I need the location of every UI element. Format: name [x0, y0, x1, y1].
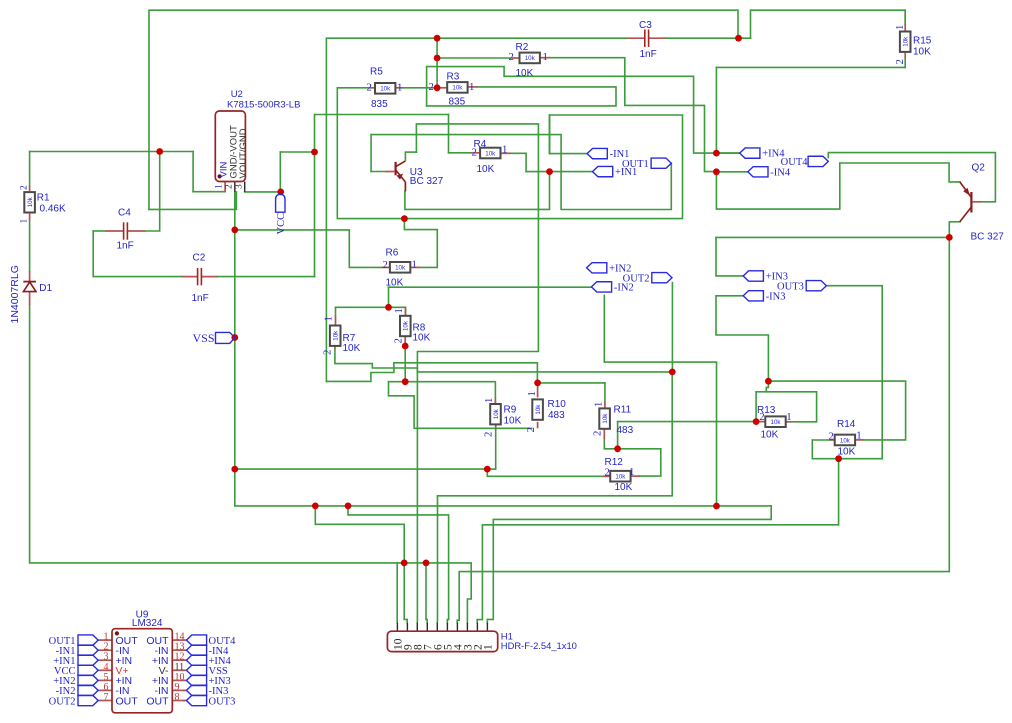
wire [716, 152, 739, 154]
pin [234, 182, 236, 192]
wire [405, 151, 416, 153]
resistor R8 [400, 316, 411, 336]
junction [614, 445, 621, 452]
svg-text:1: 1 [323, 316, 335, 321]
svg-text:10k: 10k [403, 320, 410, 331]
wire [426, 563, 427, 623]
wire [716, 66, 905, 68]
net label -IN2 [591, 282, 611, 292]
net label -IN3 [743, 291, 763, 301]
transistor Q2 BC 327 [970, 192, 972, 213]
svg-text:483: 483 [617, 425, 634, 436]
svg-text:835: 835 [449, 97, 466, 108]
svg-text:10k: 10k [452, 85, 463, 92]
resistor R9 [490, 404, 501, 424]
wire [315, 114, 448, 116]
junction [345, 503, 352, 510]
wire [755, 392, 757, 422]
wire [184, 649, 187, 651]
wire [149, 10, 738, 209]
junction [669, 369, 676, 376]
junction [231, 227, 238, 234]
wire [405, 172, 550, 210]
resistor R14 [835, 435, 855, 446]
pin [100, 649, 113, 651]
wire [604, 439, 661, 476]
svg-text:1: 1 [20, 219, 30, 224]
wire [812, 439, 829, 441]
junction [156, 148, 163, 155]
svg-text:U2: U2 [231, 89, 243, 100]
svg-text:10k: 10k [380, 86, 391, 93]
wire [404, 219, 437, 268]
svg-text:1: 1 [483, 398, 495, 403]
net label +IN3 [743, 271, 763, 281]
wire [716, 296, 768, 381]
svg-text:1N4007RLG: 1N4007RLG [9, 265, 21, 323]
pin [756, 421, 765, 423]
pin [381, 266, 390, 268]
wire [371, 135, 671, 210]
svg-text:OUT: OUT [146, 695, 169, 707]
wire [716, 171, 747, 173]
voltage regulator U2 [215, 111, 245, 182]
pin [604, 401, 606, 408]
pin [396, 623, 398, 631]
svg-text:R5: R5 [370, 67, 383, 78]
pin [172, 659, 185, 661]
wire [495, 430, 497, 469]
resistor R10 [532, 399, 543, 419]
pin [512, 57, 520, 59]
wire [337, 88, 682, 219]
svg-text:483: 483 [548, 410, 565, 421]
pin [786, 421, 791, 423]
svg-text:BC 327: BC 327 [410, 176, 444, 187]
wire [337, 87, 369, 89]
svg-text:2: 2 [829, 430, 834, 442]
junction [713, 168, 720, 175]
wire [427, 67, 740, 154]
junction [534, 380, 541, 387]
svg-text:10K: 10K [615, 482, 633, 493]
wire [405, 307, 407, 316]
pin [172, 700, 185, 702]
wire [402, 87, 438, 89]
pin [334, 346, 336, 349]
pin [29, 292, 31, 305]
pin [628, 37, 645, 39]
wire [184, 700, 187, 702]
wire [812, 440, 882, 459]
pin [416, 623, 418, 631]
svg-text:10K: 10K [913, 47, 931, 58]
svg-text:1nF: 1nF [640, 49, 657, 60]
svg-text:1: 1 [526, 391, 538, 396]
junction [401, 215, 408, 222]
pin [437, 87, 447, 89]
svg-text:1: 1 [215, 184, 225, 189]
pin [471, 152, 480, 154]
pin [202, 276, 218, 278]
svg-text:R3: R3 [447, 72, 460, 83]
svg-text:C2: C2 [193, 253, 206, 264]
svg-text:C4: C4 [118, 208, 131, 219]
wire [193, 191, 225, 193]
resistor R12 [610, 471, 630, 482]
pin [369, 87, 375, 89]
power flag VCC [276, 194, 285, 212]
wire [904, 10, 906, 24]
junction [484, 466, 491, 473]
junction [231, 334, 238, 341]
resistor R3 [447, 82, 467, 93]
wire [751, 10, 906, 38]
junction [713, 503, 720, 510]
wire [184, 639, 187, 641]
wire [766, 381, 816, 422]
svg-text:1: 1 [393, 308, 405, 313]
svg-text:1: 1 [593, 402, 605, 407]
wire [715, 67, 717, 153]
junction [753, 418, 760, 425]
wire [184, 679, 187, 681]
svg-text:BC 327: BC 327 [971, 232, 1005, 243]
wire [716, 163, 959, 209]
pin [29, 214, 31, 221]
net label OUT1 [651, 158, 671, 168]
wire [314, 115, 316, 277]
junction [231, 466, 238, 473]
junction [434, 35, 441, 42]
resistor R4 [480, 148, 500, 159]
svg-text:10k: 10k [333, 330, 340, 341]
wire [184, 669, 187, 671]
wire [396, 563, 398, 623]
svg-text:10k: 10k [535, 404, 542, 415]
pin [224, 182, 226, 192]
svg-text:10k: 10k [615, 474, 626, 481]
svg-text:1: 1 [397, 81, 402, 93]
junction [434, 55, 441, 62]
pin [100, 689, 113, 691]
svg-text:10k: 10k [602, 413, 609, 424]
wire [335, 307, 337, 316]
wire [184, 659, 187, 661]
wire [548, 115, 550, 154]
svg-text:OUT2: OUT2 [49, 696, 76, 707]
pin [486, 623, 488, 631]
pin [649, 37, 666, 39]
transistor U3 BC 327 [395, 162, 397, 175]
wire [389, 286, 592, 288]
net label OUT2 [652, 273, 672, 283]
svg-text:OUT1: OUT1 [622, 159, 649, 170]
junction [546, 168, 553, 175]
svg-text:-IN3: -IN3 [766, 291, 786, 302]
svg-text:2: 2 [393, 338, 405, 343]
svg-text:VCC: VCC [276, 213, 287, 235]
wire [510, 153, 526, 171]
svg-text:C3: C3 [639, 20, 652, 31]
svg-text:1: 1 [856, 429, 861, 441]
svg-text:10K: 10K [516, 68, 534, 79]
wire [326, 38, 628, 381]
svg-text:R6: R6 [386, 248, 399, 259]
pin [426, 623, 428, 631]
wire [245, 191, 281, 193]
wire [235, 468, 496, 470]
pin [29, 186, 31, 191]
net label +IN1 [593, 166, 613, 176]
wire [98, 649, 101, 651]
power flag VSS [216, 332, 235, 343]
resistor R1 [24, 192, 35, 212]
svg-text:OUT2: OUT2 [623, 273, 650, 284]
wire [348, 506, 449, 623]
pin [100, 639, 113, 641]
wire [235, 230, 381, 268]
svg-text:D1: D1 [39, 283, 52, 294]
wire [404, 346, 406, 382]
pin [29, 271, 31, 281]
pin [466, 623, 468, 631]
wire [335, 349, 417, 368]
pin [100, 669, 113, 671]
svg-text:2: 2 [605, 467, 610, 479]
net label +IN2 [587, 263, 607, 273]
wire [336, 306, 406, 308]
wire [756, 391, 766, 393]
wire [30, 151, 194, 153]
wire [93, 231, 181, 277]
pin [128, 230, 146, 232]
pin [172, 649, 185, 651]
junction [735, 35, 742, 42]
svg-text:10K: 10K [838, 447, 856, 458]
wire [538, 382, 605, 384]
pin [456, 623, 458, 631]
svg-text:1: 1 [543, 51, 548, 63]
capacitor C4 [123, 222, 125, 239]
resistor R13 [765, 416, 785, 427]
svg-text:835: 835 [371, 99, 388, 110]
svg-text:R9: R9 [504, 405, 517, 416]
svg-text:R10: R10 [548, 399, 567, 410]
svg-text:10K: 10K [477, 164, 495, 175]
svg-text:10K: 10K [504, 416, 522, 427]
svg-text:2: 2 [472, 146, 477, 158]
svg-text:2: 2 [509, 51, 514, 63]
svg-text:7: 7 [104, 692, 109, 703]
wire [487, 469, 605, 476]
svg-text:1: 1 [894, 25, 906, 30]
wire [218, 276, 315, 278]
wire [666, 37, 751, 39]
wire [315, 506, 404, 563]
svg-text:1nF: 1nF [192, 293, 209, 304]
wire [436, 496, 438, 623]
wire [457, 222, 949, 623]
wire [98, 669, 101, 671]
pin [494, 397, 496, 406]
svg-text:OUT3: OUT3 [209, 696, 236, 707]
wire [617, 422, 619, 449]
pin [335, 316, 337, 326]
pin [603, 475, 611, 477]
svg-text:10k: 10k [493, 408, 500, 419]
pin [244, 182, 246, 192]
wire [93, 230, 105, 232]
svg-text:R1: R1 [37, 193, 50, 204]
svg-text:LM324: LM324 [132, 618, 163, 629]
svg-text:2: 2 [367, 81, 372, 93]
svg-text:2: 2 [759, 411, 764, 423]
svg-text:1: 1 [502, 143, 507, 155]
pin [603, 429, 605, 439]
pin [468, 86, 478, 88]
wire [448, 115, 450, 153]
svg-text:10K: 10K [761, 430, 779, 441]
svg-text:2: 2 [592, 431, 604, 436]
wire [389, 382, 532, 429]
wire [828, 153, 995, 202]
junction [401, 560, 408, 567]
wire [949, 221, 960, 223]
svg-text:VSS: VSS [192, 331, 214, 345]
pin [829, 439, 835, 441]
net label +IN4 [740, 148, 760, 158]
svg-text:R2: R2 [516, 42, 529, 53]
junction [765, 378, 772, 385]
wire [904, 59, 906, 68]
wire [477, 459, 838, 623]
svg-text:10k: 10k [903, 36, 910, 47]
svg-text:OUT4: OUT4 [781, 157, 809, 168]
wire [371, 171, 385, 173]
junction [713, 150, 720, 157]
svg-text:-IN4: -IN4 [770, 167, 791, 178]
pin [404, 336, 406, 346]
wire [29, 221, 31, 271]
wire [604, 295, 716, 506]
resistor R7 [330, 326, 341, 346]
wire [98, 639, 101, 641]
pin [172, 639, 185, 641]
pin [446, 623, 448, 631]
wire [326, 363, 537, 383]
wire [388, 287, 390, 307]
svg-text:1: 1 [482, 644, 494, 650]
junction [835, 455, 842, 462]
op-amp U9 LM324 [112, 629, 172, 713]
pin [172, 669, 185, 671]
pin [537, 385, 539, 397]
net label -IN1 [587, 148, 607, 158]
wire [98, 659, 101, 661]
resistor R2 [520, 53, 540, 64]
capacitor C2 [197, 268, 199, 285]
diode D1 [23, 282, 36, 292]
junction [311, 149, 318, 156]
pin [106, 230, 124, 232]
wire [184, 689, 187, 691]
svg-text:1: 1 [629, 466, 634, 478]
resistor R15 [900, 32, 911, 52]
pin [540, 57, 550, 59]
svg-text:2: 2 [20, 185, 30, 190]
pin [100, 679, 113, 681]
wire [427, 87, 616, 106]
wire [192, 152, 194, 192]
svg-text:3: 3 [234, 184, 244, 189]
wire [438, 372, 673, 496]
svg-text:2: 2 [894, 59, 906, 64]
svg-text:10K: 10K [413, 333, 431, 344]
pin [100, 659, 113, 661]
svg-text:2: 2 [525, 427, 537, 432]
pin [904, 24, 906, 30]
wire [487, 506, 771, 623]
svg-text:HDR-F-2.54_1x10: HDR-F-2.54_1x10 [501, 640, 577, 651]
pin [537, 422, 539, 428]
wire [235, 338, 771, 506]
wire [716, 237, 743, 276]
net label -IN4 [748, 167, 768, 177]
svg-text:10k: 10k [840, 437, 851, 444]
pin [410, 266, 420, 268]
junction [277, 189, 284, 196]
wire [404, 563, 407, 623]
svg-text:8: 8 [175, 692, 180, 703]
wire [29, 152, 31, 186]
svg-text:Q2: Q2 [972, 163, 986, 174]
pin [855, 439, 864, 441]
pin [904, 53, 906, 59]
svg-text:OUT3: OUT3 [777, 281, 804, 292]
pin [436, 623, 438, 631]
pin [405, 307, 407, 316]
svg-text:10k: 10k [771, 419, 782, 426]
svg-text:R15: R15 [913, 36, 932, 47]
wire [98, 679, 101, 681]
svg-text:10k: 10k [27, 196, 34, 207]
svg-text:10K: 10K [343, 343, 361, 354]
svg-text:K7815-500R3-LB: K7815-500R3-LB [227, 100, 300, 111]
svg-text:10k: 10k [485, 150, 496, 157]
pin [181, 276, 197, 278]
pin [396, 87, 402, 89]
svg-text:1: 1 [469, 81, 474, 93]
pin [172, 689, 185, 691]
junction [946, 234, 953, 241]
junction [423, 560, 430, 567]
pin [501, 152, 511, 154]
wire [146, 152, 160, 232]
svg-text:10k: 10k [525, 55, 536, 62]
capacitor C3 [644, 30, 646, 47]
net label OUT3 [806, 281, 826, 291]
svg-text:2: 2 [383, 259, 388, 271]
net label OUT4 [808, 156, 828, 166]
svg-text:2: 2 [225, 184, 235, 189]
junction [402, 378, 409, 385]
wire [235, 192, 237, 210]
junction [385, 304, 392, 311]
wire [98, 689, 101, 691]
pin [495, 422, 497, 430]
svg-text:0.46K: 0.46K [40, 204, 66, 215]
